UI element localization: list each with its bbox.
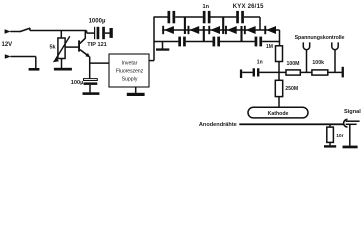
svg-text:100M: 100M (287, 61, 300, 67)
svg-text:100k: 100k (312, 60, 324, 66)
svg-text:Invetar: Invetar (122, 61, 138, 67)
svg-text:5k: 5k (50, 44, 57, 50)
svg-text:Signal: Signal (344, 109, 361, 115)
svg-text:Fluoreszenz: Fluoreszenz (116, 69, 144, 75)
svg-text:Anodendrähte: Anodendrähte (199, 122, 237, 128)
svg-text:100µ: 100µ (71, 80, 84, 86)
svg-text:1n: 1n (203, 4, 210, 10)
svg-text:1n: 1n (257, 60, 263, 66)
svg-text:1M: 1M (266, 44, 273, 50)
svg-text:12V: 12V (2, 42, 13, 48)
svg-text:Kathode: Kathode (268, 111, 289, 117)
svg-text:1000µ: 1000µ (89, 19, 106, 25)
svg-text:Supply: Supply (122, 77, 138, 83)
svg-text:250M: 250M (285, 86, 298, 92)
svg-text:Spannungskontrolle: Spannungskontrolle (295, 35, 345, 41)
svg-text:KYX 26/15: KYX 26/15 (233, 4, 264, 10)
svg-text:TIP 121: TIP 121 (87, 42, 107, 48)
svg-text:10r: 10r (336, 133, 343, 139)
